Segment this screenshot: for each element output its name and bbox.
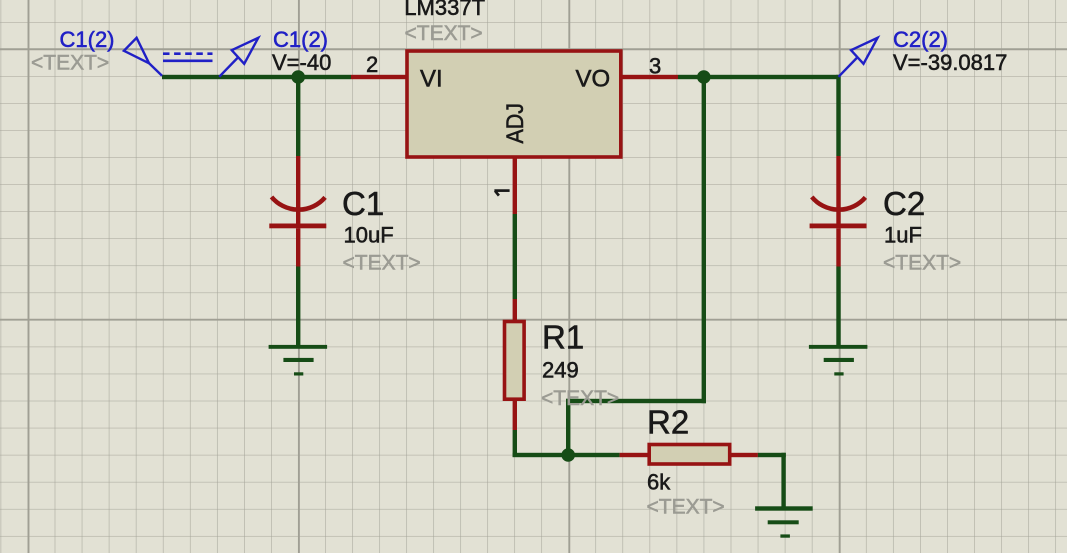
node: junction at output xyxy=(697,70,711,84)
resistor R1 body xyxy=(505,322,525,400)
svg-text:<TEXT>: <TEXT> xyxy=(343,252,421,275)
resistor R2 body xyxy=(649,445,730,465)
ground under C1 xyxy=(269,345,328,376)
svg-text:1uF: 1uF xyxy=(884,223,922,248)
wire: C2 column red to capacitor xyxy=(836,156,840,224)
svg-text:<TEXT>: <TEXT> xyxy=(405,22,483,45)
wire: down to ground green xyxy=(781,453,785,507)
svg-text:<TEXT>: <TEXT> xyxy=(647,496,725,519)
wire: ADJ pin red stub xyxy=(513,157,517,214)
wire: ADJ column green xyxy=(513,214,517,299)
regulator U1 LM337T body xyxy=(407,51,621,157)
ground under C2 xyxy=(809,345,868,376)
wire: R2 right green xyxy=(758,453,786,457)
node: junction at C1 top xyxy=(291,70,305,84)
wire: C2 column green upper xyxy=(836,75,840,156)
voltage probe arrow right xyxy=(839,38,878,77)
svg-text:ADJ: ADJ xyxy=(502,103,529,144)
svg-text:<TEXT>: <TEXT> xyxy=(883,252,961,275)
svg-text:C2: C2 xyxy=(883,185,925,222)
svg-text:VI: VI xyxy=(420,65,443,92)
wire: feedback column green xyxy=(702,75,706,403)
DC source symbol xyxy=(163,54,213,61)
svg-text:R2: R2 xyxy=(647,404,689,441)
pin number 1 xyxy=(494,191,509,196)
svg-text:6k: 6k xyxy=(647,470,671,495)
svg-text:LM337T: LM337T xyxy=(404,0,485,20)
wire: C2 bottom red xyxy=(836,228,840,266)
capacitor C1 bottom plate xyxy=(269,224,326,229)
svg-text:10uF: 10uF xyxy=(344,223,394,248)
node: junction bottom net xyxy=(561,448,575,462)
voltage probe arrow mid xyxy=(219,38,258,77)
wire: VO pin red stub xyxy=(622,75,678,79)
wire: R1 top red stub xyxy=(513,299,517,320)
wire: C1 column red to capacitor xyxy=(296,156,300,224)
ground under R2 xyxy=(755,506,813,537)
generator probe arrow left xyxy=(124,38,162,76)
capacitor C2 top plate arc xyxy=(812,197,866,210)
wire: C1 bottom red xyxy=(296,228,300,266)
wire: C1 column green upper xyxy=(296,75,300,156)
svg-text:VO: VO xyxy=(576,65,611,92)
svg-text:C1(2): C1(2) xyxy=(273,27,328,52)
svg-text:V=-40: V=-40 xyxy=(272,50,331,75)
wire: input net horizontal green xyxy=(162,75,351,79)
wire: C1 to ground green xyxy=(296,267,300,347)
wire: R1 bottom green xyxy=(513,430,517,457)
capacitor C1 top plate arc xyxy=(272,197,326,210)
wire: feedback down to R2 net xyxy=(566,399,570,457)
wire: pin 2 red stub xyxy=(351,75,406,79)
wire: R1 bottom red stub xyxy=(513,401,517,431)
wire: feedback horizontal green xyxy=(566,399,706,403)
svg-text:3: 3 xyxy=(649,54,661,79)
wire: R2 left red stub xyxy=(620,453,648,457)
svg-text:C1(2): C1(2) xyxy=(60,27,115,52)
svg-text:249: 249 xyxy=(542,358,579,383)
svg-text:C2(2): C2(2) xyxy=(893,27,948,52)
capacitor C2 bottom plate xyxy=(810,224,867,229)
wire: C2 to ground green xyxy=(836,267,840,347)
svg-text:V=-39.0817: V=-39.0817 xyxy=(893,50,1007,75)
wire: bottom net green horizontal xyxy=(513,453,620,457)
svg-text:2: 2 xyxy=(366,52,378,77)
svg-text:C1: C1 xyxy=(342,185,384,222)
svg-text:<TEXT>: <TEXT> xyxy=(541,387,619,410)
wire: R2 right red stub xyxy=(731,453,758,457)
svg-text:R1: R1 xyxy=(542,319,584,356)
wire: output net green xyxy=(678,75,839,79)
svg-text:<TEXT>: <TEXT> xyxy=(31,52,109,75)
